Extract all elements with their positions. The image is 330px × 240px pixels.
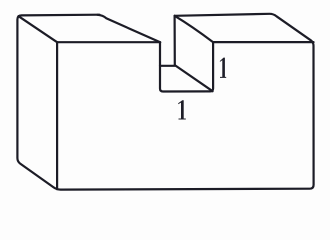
notch bottom back horizontal — [160, 65, 175, 67]
label 1 (below notch) — [178, 100, 186, 119]
left face top diagonal — [19, 16, 58, 42]
solid outer outline of the block — [17, 14, 313, 190]
notch back-right vertical — [174, 16, 176, 65]
notch right-wall top diagonal — [175, 16, 213, 42]
notch right-wall bottom diagonal — [175, 65, 213, 91]
front-top edge, left segment — [57, 41, 160, 43]
front-top edge, right segment — [213, 41, 313, 43]
front-left vertical — [56, 42, 58, 189]
label 1 (right of notch) — [220, 58, 226, 78]
notch front opening: left vertical, bottom, right vertical — [160, 42, 213, 91]
notch left-wall top diagonal (rounded bend, then shallow slope) — [98, 15, 161, 43]
